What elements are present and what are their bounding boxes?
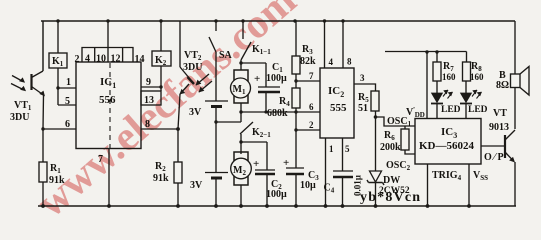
light arrows VT2 [196,74,212,92]
contact K2-1 [240,112,253,142]
capacitor C4 [333,171,353,206]
svg-text:1: 1 [329,144,334,154]
svg-text:100µ: 100µ [266,189,287,200]
wire K1 to pins 1/5 [58,68,76,105]
svg-text:5: 5 [65,96,70,107]
transistor VT1 [30,74,32,90]
svg-text:3: 3 [360,73,365,83]
wire Vss pin [468,164,470,206]
svg-text:680k: 680k [267,108,288,119]
transistor VT2 [179,21,181,67]
svg-text:3DU: 3DU [183,62,202,73]
svg-text:6: 6 [309,102,314,112]
zener DW [370,171,382,182]
wire left frame [42,21,44,71]
wire pin7 to ground [108,148,110,206]
svg-text:160: 160 [470,72,484,82]
resistor R4 [292,88,300,108]
svg-text:9013: 9013 [489,122,509,133]
resistor R7 [436,52,438,94]
wire O/P base [481,145,505,147]
watermark www.elecfans.com [28,0,305,227]
svg-text:91k: 91k [49,175,65,186]
svg-text:LED: LED [441,105,461,115]
wire Vdd bus [385,51,467,53]
svg-text:10µ: 10µ [300,180,316,191]
resistor R6 [405,126,415,154]
contact K1-1 [241,21,251,63]
svg-text:2: 2 [309,120,314,130]
wire VT1 emitter to pin6 [43,95,76,162]
wire pin3 to R5 [354,84,376,91]
svg-text:9: 9 [146,77,151,88]
svg-text:VT: VT [493,108,507,119]
svg-text:200k: 200k [380,142,401,153]
LED LED2 [461,93,472,103]
wire speaker to collector [514,88,516,130]
svg-text:+: + [253,158,259,170]
IC1 556 box [76,62,141,149]
pin 5 wire [342,138,344,171]
wire K2 to pins 9/13 [160,66,162,91]
svg-text:100µ: 100µ [266,73,287,84]
capacitor C1 [258,63,280,112]
pin 9 stub [141,86,161,88]
battery B1 3V [205,100,228,102]
wire battery tap [216,121,241,123]
svg-text:3V: 3V [189,107,202,118]
relay K1 [49,53,67,68]
resistor R5 [371,91,379,111]
resistor R8 [465,52,468,94]
capacitor C3 [286,168,304,206]
wire mid bus y112 [241,111,320,113]
svg-text:555: 555 [330,102,347,114]
wire rail to pin row [107,21,109,48]
motor M1 [234,70,248,103]
resistor R2 [174,162,182,183]
svg-text:5: 5 [345,144,350,154]
speaker B [511,74,521,88]
transistor VT 9013 [504,135,506,158]
wire top rail [41,20,515,22]
switch SA [209,21,216,101]
svg-text:1: 1 [66,77,71,88]
IC3 KD-56024 box [415,119,481,165]
svg-text:O⁄P: O⁄P [484,152,506,163]
resistor R3 [295,21,297,56]
svg-text:LED: LED [468,105,488,115]
IC2 555 box [320,68,354,138]
svg-text:6: 6 [65,119,70,130]
svg-text:8: 8 [145,119,150,130]
relay K2 [160,21,162,51]
svg-text:+: + [283,157,289,169]
pin 1 wire [325,138,327,206]
svg-text:3DU: 3DU [10,112,29,123]
svg-text:TRIG4: TRIG4 [432,170,462,182]
battery B2 3V [205,172,228,174]
wire rail to speaker [514,21,516,74]
wire K2-1 to M2 and C2 [241,142,267,154]
svg-text:SA: SA [219,50,233,61]
svg-text:12: 12 [111,54,121,65]
pin 4 wire [324,21,326,68]
wire node to C1 top [241,62,266,64]
svg-text:KD—56024: KD—56024 [419,140,475,152]
pin 13 box [141,91,161,105]
svg-text:8Ω: 8Ω [496,80,509,91]
pin 8 wire [342,21,344,68]
LED LED1 [432,93,443,103]
svg-text:556: 556 [99,94,116,106]
svg-text:7: 7 [309,71,314,81]
wire R5 node to OSC1 [376,117,416,126]
svg-text:8: 8 [347,57,352,67]
svg-text:+: + [254,73,260,85]
resistor R1 [39,162,47,182]
svg-text:7: 7 [98,154,103,165]
svg-text:14: 14 [135,54,145,65]
svg-text:4: 4 [85,54,90,65]
svg-text:2: 2 [75,54,80,65]
wire bottom rail [38,205,516,207]
svg-text:yb*8Vcn: yb*8Vcn [360,190,421,205]
MAIN2 [385,21,529,206]
wire pin8 to node A [141,128,178,130]
svg-text:82k: 82k [300,56,316,67]
light arrows VT1 [11,76,24,91]
svg-text:91k: 91k [153,173,169,184]
svg-text:10: 10 [96,54,106,65]
wire TRIG pin [427,164,429,206]
svg-text:160: 160 [442,72,456,82]
svg-text:3V: 3V [190,180,203,191]
svg-text:51: 51 [358,103,368,114]
capacitor C2 [255,142,275,206]
wire Vdd pin [426,52,428,119]
svg-text:4: 4 [329,57,334,67]
motor M2 [234,152,248,185]
IC1 dashed divider [109,63,111,148]
wire K1 feed [57,21,59,53]
IC1 top pin boxes 4 10 12 [82,48,133,63]
wire R3/R4 node to pin7 [296,74,320,88]
svg-text:13: 13 [144,95,154,106]
svg-text:DW: DW [383,175,400,186]
wire pin2 stub [296,129,320,131]
